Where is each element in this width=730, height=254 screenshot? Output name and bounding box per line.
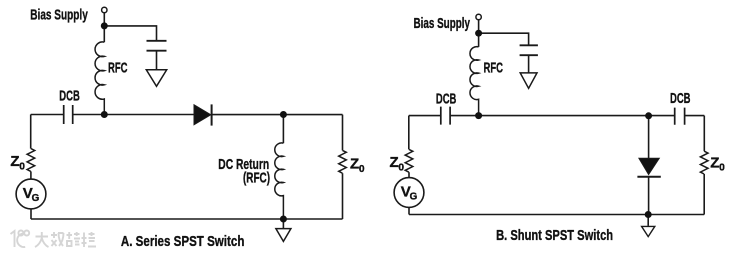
svg-text:Bias Supply: Bias Supply xyxy=(30,6,88,23)
svg-text:RFC: RFC xyxy=(484,60,504,77)
svg-text:DCB: DCB xyxy=(436,91,457,108)
svg-text:A. Series SPST Switch: A. Series SPST Switch xyxy=(121,233,244,250)
svg-text:(RFC): (RFC) xyxy=(243,170,270,187)
svg-text:Bias Supply: Bias Supply xyxy=(414,15,471,32)
svg-text:DCB: DCB xyxy=(670,90,691,107)
svg-text:DCB: DCB xyxy=(59,87,80,104)
svg-text:RFC: RFC xyxy=(108,60,128,77)
svg-text:B. Shunt SPST Switch: B. Shunt SPST Switch xyxy=(496,227,613,244)
